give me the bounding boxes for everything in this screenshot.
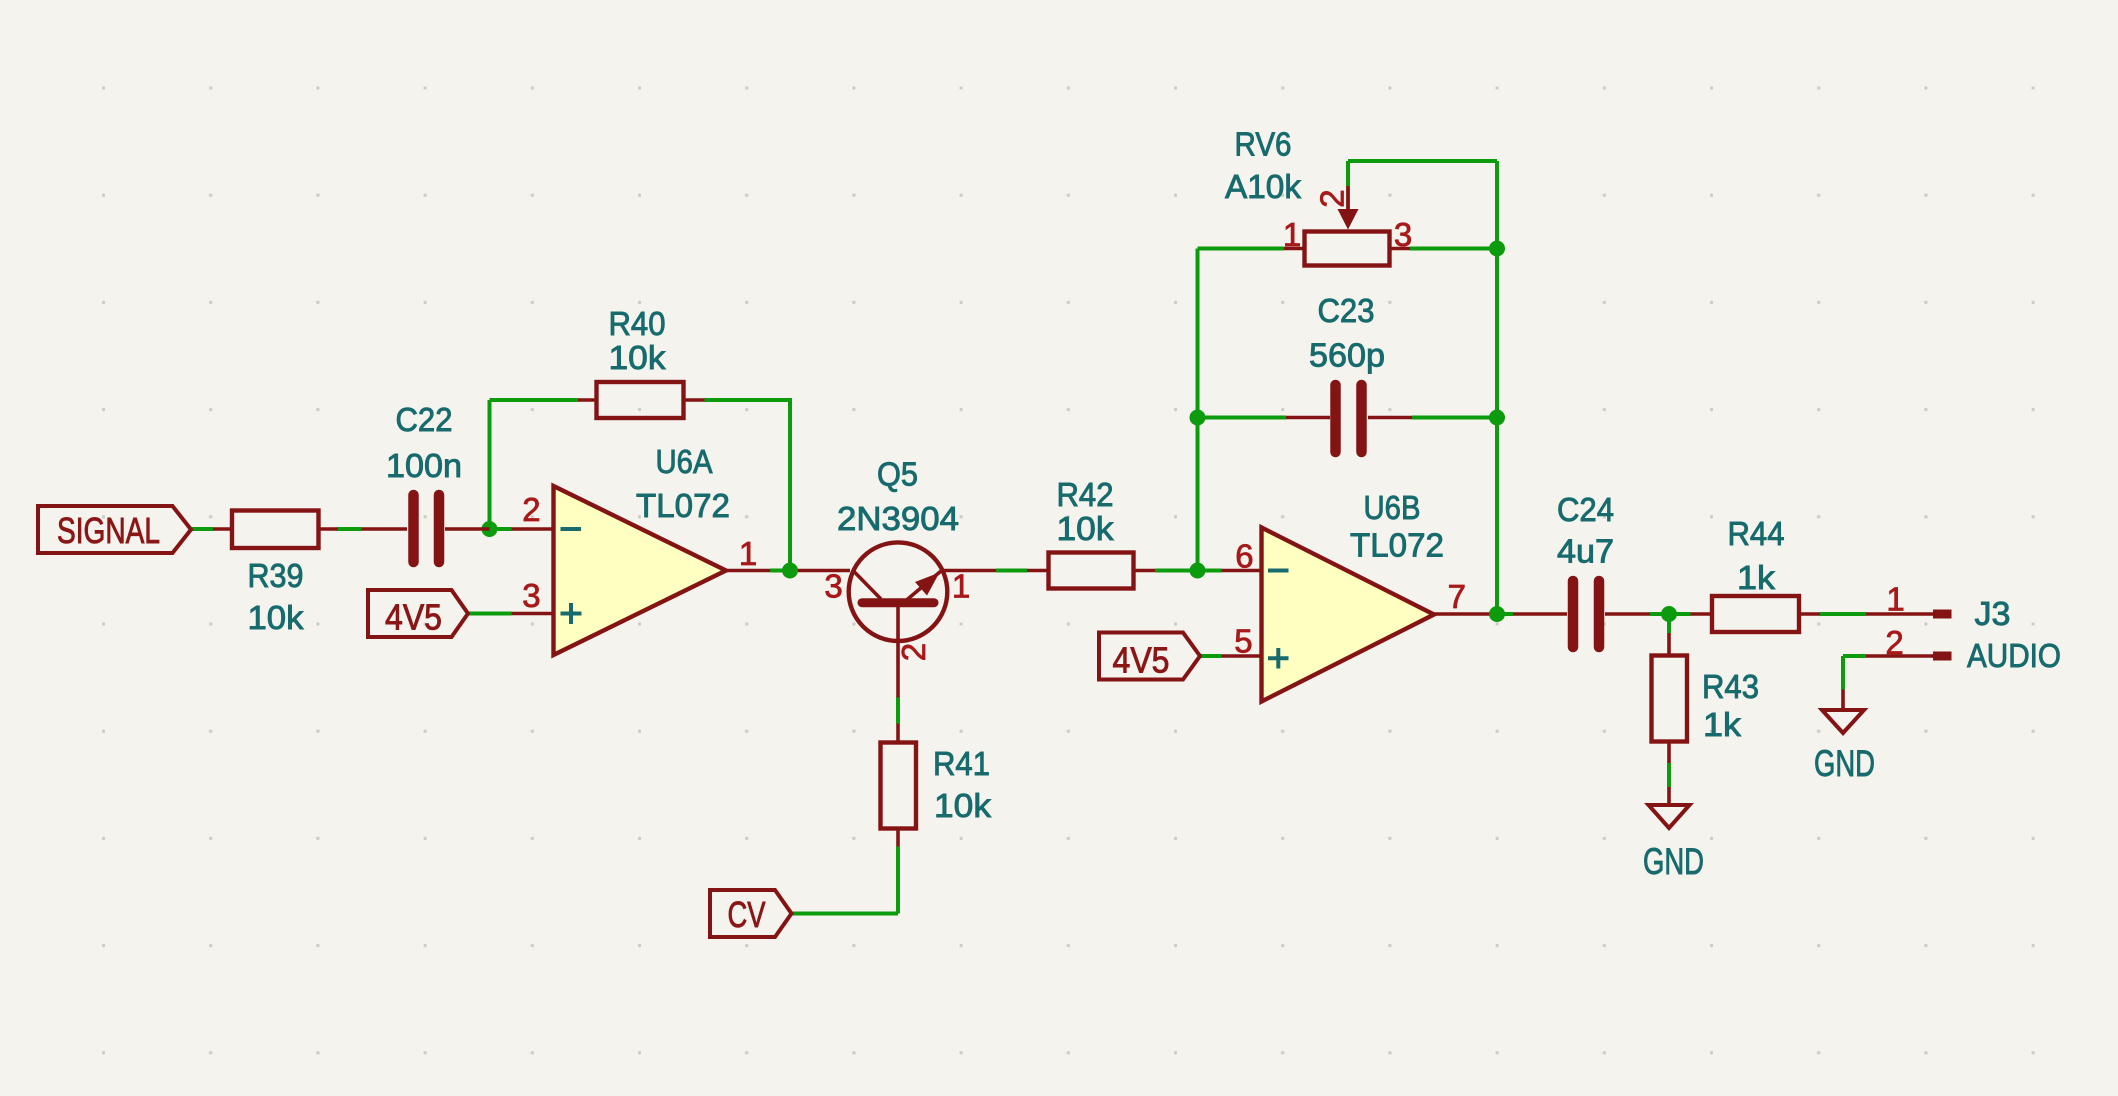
svg-text:TL072: TL072 <box>1350 527 1444 564</box>
svg-text:4V5: 4V5 <box>1113 640 1170 681</box>
svg-text:5: 5 <box>1234 623 1252 660</box>
svg-text:R41: R41 <box>933 745 990 782</box>
svg-text:R39: R39 <box>248 557 304 594</box>
svg-text:TL072: TL072 <box>636 487 730 524</box>
svg-text:AUDIO: AUDIO <box>1967 637 2061 674</box>
svg-text:SIGNAL: SIGNAL <box>57 510 160 551</box>
svg-text:RV6: RV6 <box>1235 126 1292 163</box>
svg-text:2: 2 <box>895 643 932 661</box>
svg-text:U6A: U6A <box>656 443 713 480</box>
svg-text:4u7: 4u7 <box>1557 533 1614 570</box>
svg-text:3: 3 <box>522 577 540 614</box>
svg-text:Q5: Q5 <box>877 456 918 493</box>
svg-text:1: 1 <box>952 568 970 605</box>
svg-text:6: 6 <box>1235 538 1253 575</box>
svg-text:1: 1 <box>1886 581 1904 618</box>
svg-text:R43: R43 <box>1702 668 1759 705</box>
svg-text:1k: 1k <box>1737 559 1776 596</box>
svg-text:2: 2 <box>1885 624 1903 661</box>
svg-text:3: 3 <box>824 568 842 605</box>
svg-text:GND: GND <box>1814 743 1875 784</box>
svg-text:100n: 100n <box>386 447 462 484</box>
svg-text:R44: R44 <box>1728 515 1785 552</box>
svg-text:U6B: U6B <box>1364 489 1421 526</box>
svg-text:R42: R42 <box>1057 476 1114 513</box>
svg-text:CV: CV <box>728 894 766 935</box>
svg-text:2: 2 <box>522 491 540 528</box>
svg-text:10k: 10k <box>248 599 305 636</box>
svg-text:R40: R40 <box>609 305 666 342</box>
svg-text:C22: C22 <box>396 401 453 438</box>
svg-text:7: 7 <box>1448 578 1466 615</box>
svg-text:4V5: 4V5 <box>385 597 442 638</box>
svg-text:1: 1 <box>1283 216 1301 253</box>
svg-text:C23: C23 <box>1318 292 1375 329</box>
svg-text:C24: C24 <box>1557 491 1614 528</box>
svg-text:2N3904: 2N3904 <box>837 500 959 537</box>
svg-text:10k: 10k <box>1057 510 1115 547</box>
svg-text:1k: 1k <box>1703 706 1742 743</box>
svg-text:2: 2 <box>1314 189 1351 207</box>
svg-text:A10k: A10k <box>1225 168 1302 205</box>
svg-text:1: 1 <box>739 535 757 572</box>
svg-text:GND: GND <box>1643 841 1704 882</box>
svg-text:10k: 10k <box>609 339 667 376</box>
svg-text:560p: 560p <box>1309 337 1385 374</box>
svg-text:10k: 10k <box>934 787 992 824</box>
svg-text:3: 3 <box>1394 216 1412 253</box>
svg-text:J3: J3 <box>1975 595 2011 632</box>
